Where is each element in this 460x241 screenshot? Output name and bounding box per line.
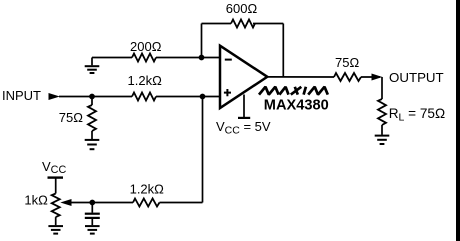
svg-text:VCC = 5V: VCC = 5V (216, 119, 271, 137)
wire output down (381, 77, 383, 99)
node cap junction (89, 200, 95, 206)
op-amp plus symbol (224, 89, 231, 96)
wire output left (266, 76, 380, 78)
wire feedback right bus (282, 24, 284, 78)
ground G4 (pot) (48, 226, 63, 234)
ground G1 (200ohm) (85, 58, 100, 74)
wire bottom right (160, 202, 203, 204)
output arrow (372, 74, 383, 81)
ground G5 (cap) (85, 226, 100, 234)
MAXIM logo (259, 87, 328, 95)
svg-text:1.2kΩ: 1.2kΩ (128, 73, 163, 88)
pot wiper arrow (60, 199, 71, 206)
resistor 200ohm (132, 54, 156, 62)
svg-text:1kΩ: 1kΩ (24, 192, 48, 207)
resistor 75ohm output (334, 73, 361, 81)
node minus junction (199, 55, 205, 61)
wire VCC bar to pot (55, 178, 57, 194)
capacitor bypass (85, 203, 100, 226)
svg-text:200Ω: 200Ω (130, 39, 162, 54)
wire feedback top left segment (202, 23, 232, 25)
resistor 600ohm feedback (231, 20, 255, 28)
svg-text:OUTPUT: OUTPUT (389, 70, 444, 85)
ground G2 (75ohm shunt) (85, 140, 100, 149)
wire plus input right (156, 96, 220, 98)
svg-text:75Ω: 75Ω (59, 110, 83, 125)
op-amp VCC pin bar (238, 117, 250, 119)
wire bottom bus up (202, 97, 204, 203)
wire pot to ground (55, 217, 57, 225)
potentiometer 1kohm zigzag (52, 194, 60, 218)
input arrow (49, 93, 60, 100)
svg-text:600Ω: 600Ω (226, 1, 258, 16)
node plus junction (200, 94, 206, 100)
wire feedback left bus (201, 24, 203, 58)
op-amp VCC pin (243, 95, 245, 118)
node input junction (89, 94, 95, 100)
svg-text:INPUT: INPUT (2, 88, 41, 103)
ground G3 (RL) (375, 136, 390, 144)
wire RL to ground (381, 125, 383, 135)
resistor 1.2kohm top (132, 93, 156, 101)
wire minus input left (92, 57, 132, 59)
right page border (456, 0, 460, 241)
wire plus input left (59, 96, 132, 98)
op-amp U1 triangle (220, 46, 267, 108)
wire feedback top right segment (253, 23, 283, 25)
svg-text:MAX4380: MAX4380 (264, 97, 329, 113)
svg-text:75Ω: 75Ω (335, 55, 359, 70)
resistor 1.2kohm bottom (133, 199, 159, 207)
wire minus input right (156, 57, 220, 59)
VCC terminal bar (pot) (48, 176, 64, 178)
svg-text:1.2kΩ: 1.2kΩ (130, 181, 165, 196)
resistor 75ohm input shunt (88, 97, 96, 140)
op-amp minus symbol (225, 59, 232, 61)
resistor RL (378, 99, 386, 125)
wire wiper to bus (71, 202, 134, 204)
